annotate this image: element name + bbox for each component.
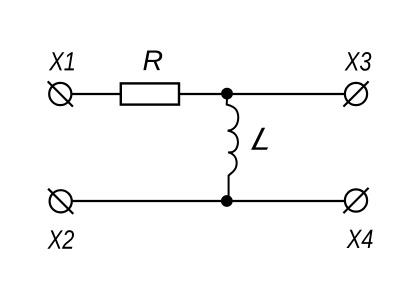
label X3: [345, 52, 372, 71]
wire node A to X3: [227, 93, 345, 95]
terminal X3: [343, 81, 368, 106]
label R: [143, 51, 162, 71]
node A (top junction): [221, 88, 233, 100]
node B (bottom junction): [221, 195, 233, 207]
label X1: [49, 52, 74, 70]
terminal X4: [343, 188, 368, 213]
label X4: [346, 230, 372, 248]
terminal X2: [48, 189, 73, 214]
resistor R: [121, 83, 179, 104]
label X2: [47, 230, 74, 249]
wire R to node A: [180, 93, 227, 95]
terminal X1: [48, 81, 73, 106]
inductor L: [227, 99, 239, 197]
wire X1 to R: [72, 93, 121, 95]
wire X2 to X4: [73, 200, 345, 202]
label L: [251, 128, 268, 150]
